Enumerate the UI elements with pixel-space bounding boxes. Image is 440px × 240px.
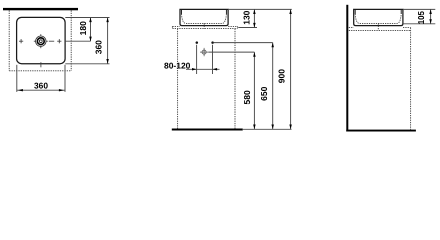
svg-text:80-120: 80-120 [164,60,191,70]
svg-text:650: 650 [259,86,269,100]
svg-text:180: 180 [78,21,88,35]
svg-text:360: 360 [94,40,104,54]
svg-text:360: 360 [34,80,48,90]
svg-text:900: 900 [277,69,287,83]
svg-text:105: 105 [416,11,426,24]
svg-text:130: 130 [242,10,252,24]
svg-text:580: 580 [242,90,252,104]
